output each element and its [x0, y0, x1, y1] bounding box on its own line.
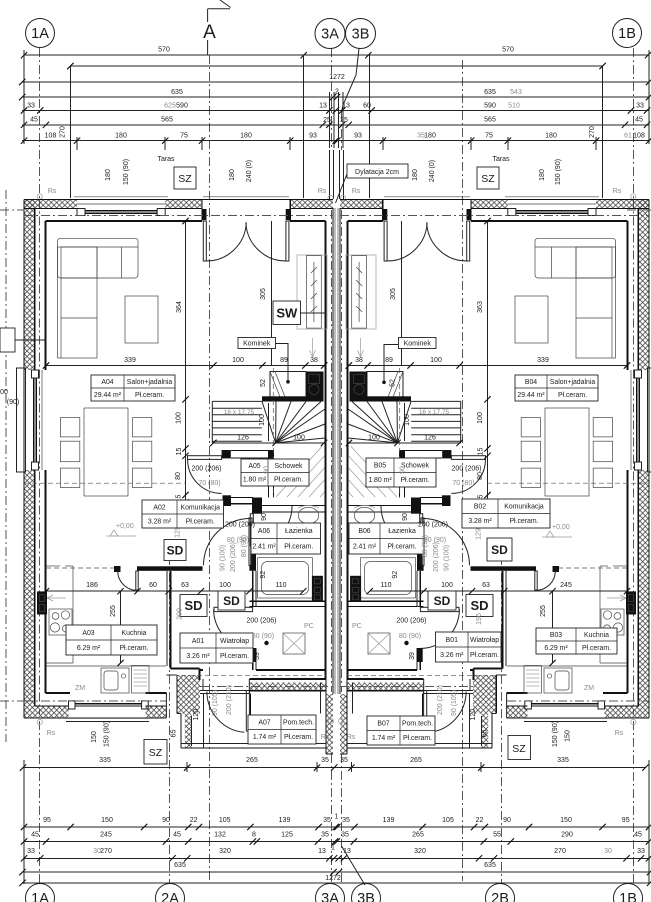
svg-text:Pł.ceram.: Pł.ceram.	[284, 544, 313, 551]
chairs left unit	[60, 418, 79, 437]
svg-text:126: 126	[237, 435, 249, 442]
svg-text:SZ: SZ	[512, 743, 526, 755]
svg-text:80: 80	[175, 472, 182, 480]
svg-text:200 (206): 200 (206)	[452, 466, 482, 473]
bottom chain 635+635	[23, 871, 651, 873]
sink left unit	[101, 668, 129, 693]
svg-text:100: 100	[477, 412, 484, 424]
svg-text:95: 95	[43, 817, 51, 824]
svg-text:33: 33	[27, 102, 35, 109]
window right side wall	[648, 368, 651, 472]
svg-text:590: 590	[484, 102, 496, 109]
svg-text:3A: 3A	[321, 891, 339, 902]
svg-text:(90): (90)	[7, 399, 19, 406]
wall komunikacja/schowek-lazienka right unit	[442, 495, 451, 506]
svg-text:635: 635	[484, 89, 496, 96]
svg-text:Pł.ceram.: Pł.ceram.	[274, 477, 303, 484]
svg-text:180: 180	[229, 169, 236, 181]
svg-text:6.29 m²: 6.29 m²	[544, 645, 568, 652]
room B04	[515, 375, 598, 401]
svg-text:22: 22	[190, 817, 198, 824]
svg-text:PC: PC	[304, 623, 314, 630]
svg-text:305: 305	[390, 288, 397, 300]
svg-text:270: 270	[60, 126, 67, 138]
svg-text:38: 38	[355, 357, 363, 364]
svg-text:Rs: Rs	[318, 188, 327, 195]
svg-text:90: 90	[503, 817, 511, 824]
svg-text:Kominek: Kominek	[404, 341, 432, 348]
svg-text:Pł.ceram.: Pł.ceram.	[403, 735, 432, 742]
svg-text:Rs: Rs	[352, 188, 361, 195]
svg-text:13: 13	[319, 102, 327, 109]
svg-text:150: 150	[560, 817, 572, 824]
room A01	[180, 633, 253, 663]
svg-text:3.26 m²: 3.26 m²	[186, 653, 210, 660]
svg-text:270: 270	[589, 126, 596, 138]
kominek label left	[238, 338, 276, 349]
svg-text:180: 180	[412, 169, 419, 181]
svg-text:SW: SW	[276, 305, 298, 320]
svg-text:52: 52	[260, 379, 267, 387]
door salon-komunikacja right unit	[451, 456, 485, 460]
kitchen counter right unit	[599, 566, 601, 663]
extension verticals top	[69, 66, 71, 198]
svg-text:Rs: Rs	[47, 730, 56, 737]
stairs left unit	[262, 396, 324, 401]
svg-text:93: 93	[309, 133, 317, 140]
svg-text:265: 265	[410, 757, 422, 764]
leader 3B bottom	[342, 846, 366, 885]
svg-text:265: 265	[412, 832, 424, 839]
schowek diagonals left unit	[276, 446, 322, 497]
svg-text:132: 132	[214, 832, 226, 839]
svg-text:13: 13	[318, 848, 326, 855]
svg-text:180: 180	[545, 133, 557, 140]
svg-text:+0,00: +0,00	[552, 524, 570, 531]
grid line 2A	[169, 556, 171, 884]
party wall gap lines	[334, 208, 336, 694]
vertical dim 364 left	[185, 221, 187, 502]
bathtub left unit	[258, 558, 313, 598]
SD boxes right	[487, 538, 512, 561]
door wiatrolap-pc left unit	[214, 607, 253, 611]
dishwasher left unit	[132, 666, 149, 694]
svg-text:2A: 2A	[161, 891, 179, 902]
door komunikacja-wiatrolap left unit	[249, 518, 252, 565]
svg-text:A: A	[203, 22, 216, 43]
sofa left unit	[58, 238, 139, 278]
svg-text:510: 510	[508, 102, 520, 109]
svg-text:100: 100	[368, 435, 380, 442]
svg-text:200 (206): 200 (206)	[230, 542, 237, 572]
svg-text:270: 270	[100, 848, 112, 855]
radiator party wall right unit	[346, 255, 376, 329]
svg-text:PC: PC	[352, 623, 362, 630]
svg-text:180: 180	[424, 133, 436, 140]
svg-text:80 (90): 80 (90)	[399, 633, 421, 640]
door komunikacja-wiatrolap right unit	[421, 518, 424, 565]
svg-text:B07: B07	[377, 721, 389, 728]
grid line 3A	[331, 48, 333, 150]
arrow niche left unit	[48, 597, 66, 599]
wall komunikacja/schowek-lazienka left unit	[223, 495, 232, 506]
kitchen door left unit	[136, 571, 138, 590]
svg-text:245: 245	[100, 832, 112, 839]
leader 3B	[342, 49, 360, 113]
kitchen north wall right unit	[559, 567, 627, 569]
svg-text:339: 339	[537, 357, 549, 364]
svg-text:45: 45	[173, 832, 181, 839]
washbasin right unit	[354, 507, 374, 523]
svg-text:Rs: Rs	[347, 734, 356, 741]
french door terrace left unit	[201, 200, 203, 222]
svg-text:55: 55	[493, 832, 501, 839]
svg-text:240 (0): 240 (0)	[429, 160, 436, 182]
svg-text:150 (90): 150 (90)	[123, 159, 130, 185]
svg-text:3.28 m²: 3.28 m²	[148, 518, 172, 525]
stair dim chain right	[349, 442, 460, 444]
svg-text:200 (206): 200 (206)	[418, 522, 448, 529]
electro boxes left unit	[37, 591, 47, 614]
kitchen counter left unit	[72, 566, 74, 663]
svg-text:Kuchnia: Kuchnia	[122, 630, 147, 637]
svg-text:625: 625	[164, 102, 176, 109]
svg-text:29.44 m²: 29.44 m²	[517, 392, 545, 399]
SZ box top left	[174, 167, 196, 189]
room A07	[248, 715, 316, 744]
salon dim chain left	[46, 365, 324, 367]
svg-text:126: 126	[424, 435, 436, 442]
french door terrace right unit	[470, 200, 472, 222]
svg-text:25: 25	[340, 117, 348, 124]
eave line left margin	[5, 190, 7, 742]
svg-text:93: 93	[354, 133, 362, 140]
svg-text:Kominek: Kominek	[243, 341, 271, 348]
svg-text:2.41 m²: 2.41 m²	[252, 544, 276, 551]
svg-text:Pł.ceram.: Pł.ceram.	[470, 652, 499, 659]
svg-text:00: 00	[0, 389, 8, 396]
svg-text:63: 63	[482, 582, 490, 589]
stairs right unit	[350, 396, 412, 401]
svg-text:Rs: Rs	[613, 188, 622, 195]
svg-text:Pł.ceram.: Pł.ceram.	[400, 477, 429, 484]
svg-text:SD: SD	[184, 598, 202, 613]
arrow left unit	[312, 338, 314, 356]
svg-text:80 (90): 80 (90)	[422, 535, 429, 557]
svg-text:Pł.ceram.: Pł.ceram.	[284, 734, 313, 741]
schowek diagonals right unit	[351, 446, 397, 497]
svg-text:38: 38	[310, 357, 318, 364]
svg-text:A03: A03	[82, 630, 94, 637]
svg-text:125: 125	[281, 832, 293, 839]
window top left unit	[77, 209, 85, 216]
svg-text:100: 100	[176, 412, 183, 424]
svg-text:SD: SD	[470, 598, 488, 613]
dishwasher right unit	[524, 666, 541, 694]
svg-text:35: 35	[342, 817, 350, 824]
svg-text:2B: 2B	[491, 891, 509, 902]
svg-text:16 x 17,75: 16 x 17,75	[419, 409, 450, 416]
svg-text:SZ: SZ	[149, 747, 163, 759]
svg-text:200: 200	[177, 608, 184, 620]
svg-text:Łazienka: Łazienka	[285, 528, 313, 535]
wall schowek west right unit	[404, 458, 406, 497]
svg-text:B03: B03	[550, 632, 562, 639]
svg-text:B04: B04	[525, 379, 537, 386]
top dimension chain 570	[24, 54, 648, 56]
svg-text:200 (206): 200 (206)	[225, 522, 255, 529]
svg-text:80: 80	[477, 472, 484, 480]
svg-text:33: 33	[636, 102, 644, 109]
pc unit right	[368, 633, 390, 654]
svg-text:61: 61	[624, 133, 632, 140]
svg-text:100: 100	[259, 414, 266, 426]
svg-text:635: 635	[484, 862, 496, 869]
svg-text:150: 150	[91, 731, 98, 743]
svg-text:Pł.ceram.: Pł.ceram.	[119, 645, 148, 652]
svg-text:SZ: SZ	[178, 173, 192, 185]
room B03	[536, 628, 617, 654]
room A04	[91, 375, 175, 401]
svg-text:150 (90): 150 (90)	[555, 159, 562, 185]
svg-text:Wiatrołap: Wiatrołap	[220, 638, 249, 645]
svg-text:89: 89	[280, 357, 288, 364]
svg-text:8: 8	[252, 832, 256, 839]
electro boxes right unit	[626, 591, 636, 614]
svg-text:15: 15	[176, 448, 183, 456]
svg-text:30: 30	[604, 848, 612, 855]
svg-text:543: 543	[510, 89, 522, 96]
wall schowek west left unit	[268, 458, 270, 497]
top chain 635/2/635	[22, 96, 649, 98]
exterior wall outline right unit	[340, 199, 649, 201]
svg-text:565: 565	[484, 117, 496, 124]
bathroom door left unit	[250, 514, 253, 546]
svg-text:Pł.ceram.: Pł.ceram.	[387, 544, 416, 551]
svg-text:180: 180	[115, 133, 127, 140]
svg-text:110: 110	[275, 582, 286, 589]
SD boxes left	[164, 540, 186, 561]
stair dim chain left	[213, 442, 324, 444]
svg-text:339: 339	[124, 357, 136, 364]
svg-text:Komunikacja: Komunikacja	[180, 504, 220, 511]
svg-text:A07: A07	[258, 720, 270, 727]
svg-text:52: 52	[390, 379, 397, 387]
bathroom west wall left unit	[250, 546, 256, 569]
room A02	[142, 500, 224, 528]
svg-text:45: 45	[635, 117, 643, 124]
bathroom south wall left unit	[249, 600, 325, 602]
kitchen dim chain right	[370, 590, 627, 592]
wiatrolap east wall / pc zone left unit	[252, 571, 254, 607]
svg-text:75: 75	[180, 133, 188, 140]
grid bubble 3A	[315, 19, 345, 49]
svg-text:3B: 3B	[352, 27, 370, 43]
svg-text:75: 75	[485, 133, 493, 140]
svg-text:Rs: Rs	[615, 730, 624, 737]
svg-text:B06: B06	[358, 528, 370, 535]
svg-text:3A: 3A	[321, 27, 339, 43]
svg-text:120: 120	[470, 709, 477, 721]
kitchen door right unit	[535, 571, 537, 590]
svg-text:105: 105	[442, 817, 454, 824]
kitchen dim chain left	[46, 590, 303, 592]
svg-text:3.28 m²: 3.28 m²	[468, 518, 492, 525]
SW box left	[273, 301, 301, 325]
svg-text:565: 565	[161, 117, 173, 124]
svg-text:Rs: Rs	[321, 734, 330, 741]
washer box right unit	[350, 576, 361, 602]
svg-text:270: 270	[554, 848, 566, 855]
svg-text:SD: SD	[434, 594, 451, 608]
svg-text:196: 196	[476, 613, 483, 625]
svg-text:180: 180	[240, 133, 252, 140]
bottom chain 95-150-90-22-105-139-35	[24, 826, 649, 828]
room B01	[436, 632, 502, 662]
svg-text:1B: 1B	[618, 26, 636, 42]
coffee table left unit	[125, 296, 158, 343]
room B05	[366, 458, 436, 487]
svg-text:Pom.tech.: Pom.tech.	[283, 720, 314, 727]
svg-text:70 (80): 70 (80)	[452, 480, 474, 487]
kitchen north wall left unit	[46, 567, 114, 569]
wall salon/komunikacja right unit	[442, 450, 451, 458]
svg-text:100: 100	[430, 357, 442, 364]
svg-text:63: 63	[181, 582, 189, 589]
section line B (2B)	[462, 60, 464, 881]
bathroom door right unit	[420, 514, 423, 546]
svg-text:39: 39	[409, 652, 416, 660]
svg-text:SZ: SZ	[481, 173, 495, 185]
svg-text:335: 335	[99, 757, 111, 764]
room B02	[462, 499, 550, 528]
svg-text:570: 570	[502, 47, 514, 54]
bottom extension verticals	[23, 760, 25, 884]
svg-text:1.80 m²: 1.80 m²	[368, 477, 392, 484]
svg-text:200 (206): 200 (206)	[247, 618, 277, 625]
svg-text:364: 364	[176, 301, 183, 313]
svg-text:1B: 1B	[619, 891, 637, 902]
svg-text:Pł.ceram.: Pł.ceram.	[220, 653, 249, 660]
door salon-komunikacja left unit	[188, 456, 222, 460]
svg-text:200 (206): 200 (206)	[397, 618, 427, 625]
exterior wall hatch right unit	[596, 200, 649, 209]
svg-text:90: 90	[261, 513, 268, 521]
svg-text:90: 90	[264, 466, 271, 474]
arrow niche right unit	[607, 597, 625, 599]
svg-text:1A: 1A	[31, 26, 49, 42]
dining table right unit	[545, 408, 589, 496]
pc unit left	[283, 633, 305, 654]
coffee table right unit	[515, 296, 548, 343]
svg-text:129: 129	[476, 528, 483, 540]
svg-text:Kuchnia: Kuchnia	[584, 632, 609, 639]
bathroom south wall right unit	[348, 600, 424, 602]
svg-text:590: 590	[176, 102, 188, 109]
exterior wall hatch left unit	[24, 200, 77, 209]
svg-text:180: 180	[539, 169, 546, 181]
svg-text:1.80 m²: 1.80 m²	[243, 477, 267, 484]
svg-text:1272: 1272	[329, 74, 345, 81]
chairs right unit	[593, 418, 612, 437]
svg-text:ZM: ZM	[584, 685, 594, 692]
svg-text:35: 35	[341, 832, 349, 839]
svg-text:1: 1	[331, 845, 335, 852]
svg-text:Taras: Taras	[492, 156, 510, 163]
svg-text:90: 90	[162, 817, 170, 824]
vertical dim 305 left	[271, 221, 273, 366]
svg-text:92: 92	[392, 571, 399, 579]
svg-text:Pł.ceram.: Pł.ceram.	[582, 645, 611, 652]
svg-text:3B: 3B	[357, 891, 375, 902]
dashed reference lines	[24, 482, 186, 484]
svg-text:22: 22	[476, 817, 484, 824]
washbasin left unit	[298, 507, 318, 523]
svg-text:1.74 m²: 1.74 m²	[253, 734, 277, 741]
svg-text:92: 92	[260, 571, 267, 579]
washer box left unit	[312, 576, 323, 602]
svg-text:245: 245	[560, 582, 572, 589]
exterior wall outline left unit	[24, 199, 333, 201]
svg-text:139: 139	[383, 817, 395, 824]
svg-text:100: 100	[232, 357, 244, 364]
svg-text:255: 255	[110, 605, 117, 617]
bottom grid circles	[26, 884, 55, 902]
room B07	[367, 716, 435, 745]
svg-text:90 (100): 90 (100)	[444, 545, 451, 571]
svg-text:Komunikacja: Komunikacja	[504, 504, 544, 511]
svg-text:Pom.tech.: Pom.tech.	[402, 721, 433, 728]
svg-text:320: 320	[219, 848, 231, 855]
svg-text:Taras: Taras	[157, 156, 175, 163]
svg-text:95: 95	[622, 817, 630, 824]
window top right unit	[588, 209, 596, 216]
front door left unit	[246, 691, 249, 732]
grid bubble 1B	[613, 19, 642, 48]
fireplace right unit	[367, 372, 403, 398]
hob right unit	[601, 609, 624, 635]
bottom chain 33-270	[24, 857, 649, 859]
svg-text:A02: A02	[153, 504, 165, 511]
svg-text:35: 35	[321, 757, 329, 764]
svg-text:305: 305	[260, 288, 267, 300]
window kitchen left unit	[69, 701, 76, 709]
svg-text:363: 363	[477, 301, 484, 313]
svg-text:570: 570	[158, 47, 170, 54]
pc zone south wall left unit	[256, 669, 326, 671]
top chain line2	[70, 65, 602, 67]
top chain 590	[22, 110, 649, 112]
svg-text:A05: A05	[248, 463, 260, 470]
kominek label right	[399, 338, 437, 349]
svg-text:150 (90): 150 (90)	[104, 721, 111, 747]
svg-text:60: 60	[149, 582, 157, 589]
svg-text:Wiatrołap: Wiatrołap	[470, 637, 499, 644]
svg-text:16 x 17,75: 16 x 17,75	[224, 409, 255, 416]
svg-text:200 (210): 200 (210)	[437, 685, 444, 715]
svg-text:B05: B05	[374, 463, 386, 470]
svg-text:65: 65	[170, 730, 177, 738]
svg-text:2.41 m²: 2.41 m²	[353, 544, 377, 551]
svg-text:108: 108	[633, 133, 645, 140]
svg-text:90 (105): 90 (105)	[212, 690, 219, 716]
svg-text:80 (90): 80 (90)	[241, 535, 248, 557]
bottom chain 45-245	[24, 841, 649, 843]
svg-text:+0,00: +0,00	[116, 523, 134, 530]
section line A	[209, 55, 211, 881]
grid line 1B	[632, 48, 634, 200]
svg-text:150 (90): 150 (90)	[552, 721, 559, 747]
